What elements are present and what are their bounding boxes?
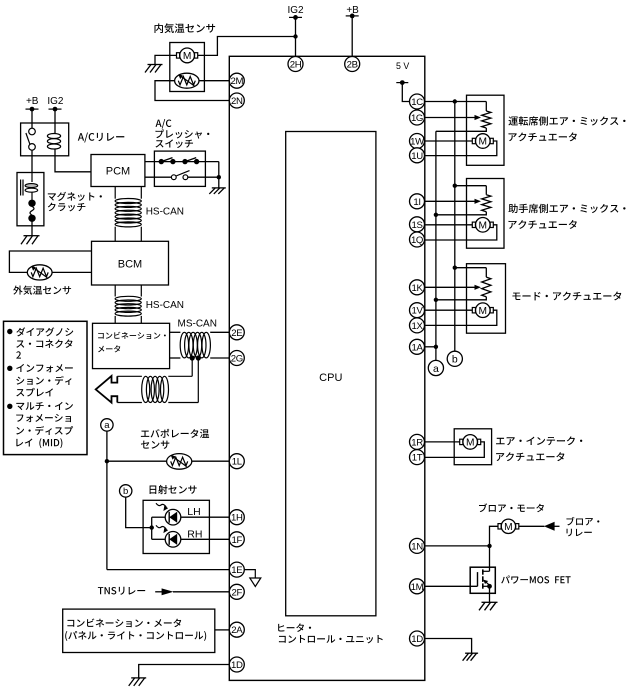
- label diagnosis connector line3: [16, 351, 21, 358]
- wire FET source to ground: [489, 586, 491, 602]
- wire meter to 2E: [170, 331, 230, 333]
- svg-text:M: M: [479, 306, 488, 317]
- wire motor 2 return to 1Q: [425, 225, 497, 240]
- svg-text:2M: 2M: [230, 76, 243, 87]
- label MID line3: [16, 426, 73, 435]
- junction a bus 1A: [434, 345, 438, 349]
- actuator box air intake: [454, 429, 491, 465]
- motor M driver side: [472, 134, 493, 149]
- pin 1H: [229, 510, 244, 525]
- svg-text:1M: 1M: [411, 582, 424, 593]
- node a right: [428, 360, 443, 375]
- clutch coil: [25, 173, 38, 201]
- wire 5V to 1C: [402, 83, 409, 102]
- pin 1I: [410, 194, 425, 209]
- svg-text:2H: 2H: [290, 60, 302, 71]
- pin 1N: [410, 538, 425, 553]
- wire BCM to ambient sensor: [9, 251, 91, 272]
- svg-text:1V: 1V: [411, 306, 423, 317]
- power MOS FET box: [470, 567, 495, 593]
- wire 1C to potentiometer 1: [425, 102, 487, 112]
- wire PCM to pressure switch lower: [145, 176, 172, 178]
- wire TNS relay stub: [155, 591, 162, 593]
- svg-text:M: M: [504, 522, 513, 533]
- svg-text:CPU: CPU: [319, 372, 342, 384]
- wire branch pair lower: [117, 402, 198, 404]
- label LH: [187, 506, 200, 518]
- display devices list box: [4, 321, 88, 454]
- label HS-CAN 1: [146, 207, 184, 218]
- svg-text:a: a: [433, 363, 439, 375]
- label driver side actuator line2: [509, 132, 577, 141]
- potentiometer R3: [482, 277, 491, 297]
- wire potentiometer 1 bottom: [436, 128, 486, 131]
- svg-text:HS-CAN: HS-CAN: [146, 207, 184, 218]
- svg-text:LH: LH: [187, 506, 200, 518]
- wire 1M to FET gate: [425, 585, 478, 587]
- wire node b to diodes: [126, 497, 152, 527]
- wire b bus to potentiometer 2: [455, 186, 487, 195]
- junction IG2/blower-fan: [293, 34, 297, 38]
- twisted pair HS-CAN 1 lines lower: [115, 227, 141, 242]
- ground power MOS FET: [479, 602, 498, 610]
- svg-text:1S: 1S: [411, 220, 422, 231]
- ground cabin sensor fan: [145, 65, 163, 73]
- wire +B to 2B: [351, 16, 353, 57]
- svg-text:+B: +B: [26, 96, 39, 107]
- svg-text:2B: 2B: [347, 60, 358, 71]
- junction MS-CAN branch 1: [190, 355, 195, 360]
- wire diode common vertical: [151, 517, 153, 539]
- svg-text:BCM: BCM: [118, 259, 142, 271]
- clutch coil core bars: [21, 180, 23, 196]
- label ambient temp sensor: [13, 285, 71, 294]
- thermistor evaporator temp: [167, 454, 192, 470]
- wire 1R to motor 4: [425, 441, 460, 443]
- clutch link squiggle: [30, 207, 34, 216]
- wire blower feed: [490, 526, 499, 546]
- label passenger side actuator line2: [509, 220, 577, 229]
- pin 2F: [229, 584, 244, 599]
- arrow from blower relay: [544, 522, 560, 531]
- A/C relay box: [21, 123, 69, 156]
- svg-text:1I: 1I: [413, 197, 420, 208]
- pin 1K: [410, 280, 425, 295]
- label diagnosis connector line1: [16, 327, 73, 336]
- wire b bus to potentiometer 3: [455, 268, 487, 277]
- pin 2G: [229, 351, 244, 366]
- svg-text:HS-CAN: HS-CAN: [146, 300, 184, 311]
- svg-text:M: M: [479, 137, 488, 148]
- svg-text:1D: 1D: [231, 660, 243, 671]
- wire motor 4 return to 1T: [425, 442, 485, 458]
- power IG2 terminal top: [287, 5, 304, 20]
- potentiometer R2: [482, 195, 491, 212]
- arrow wiper 2: [475, 199, 482, 204]
- wire thermistor to 2M: [199, 80, 229, 82]
- pressure switch open contact: [171, 171, 218, 180]
- twisted pair HS-CAN 2 coil: [115, 296, 141, 316]
- wire meter panel to 2A: [215, 629, 230, 631]
- wire 1K wiper 3: [425, 286, 476, 288]
- label power MOS FET: [501, 575, 570, 583]
- label sunload sensor: [150, 485, 197, 494]
- pin 2N: [229, 93, 244, 108]
- power +B terminal top: [346, 5, 359, 18]
- svg-text:1U: 1U: [411, 151, 423, 162]
- wire branch pair upper: [117, 375, 192, 377]
- wire blower to FET drain: [489, 546, 491, 571]
- pin 1R: [410, 434, 425, 449]
- wire 1D left to ground: [139, 665, 230, 678]
- motor M mode: [472, 303, 493, 318]
- svg-text:M: M: [466, 438, 475, 449]
- pin 1F: [229, 532, 244, 547]
- label MID line2: [16, 414, 71, 422]
- junction b bus mode: [453, 266, 457, 270]
- combination meter panel box: [63, 609, 215, 652]
- pin 2A: [229, 622, 244, 637]
- wire PCM to pressure switch upper: [145, 161, 219, 163]
- svg-text:MS-CAN: MS-CAN: [178, 318, 217, 329]
- label combination meter panel line1: [67, 619, 181, 628]
- svg-text:1Q: 1Q: [411, 235, 423, 246]
- svg-text:1W: 1W: [410, 137, 425, 148]
- svg-text:b: b: [123, 486, 128, 497]
- wire 1S to motor 2: [425, 224, 473, 226]
- svg-text:IG2: IG2: [47, 96, 64, 107]
- label blower motor: [479, 503, 544, 512]
- node b left: [120, 485, 132, 498]
- wire meter to 2G: [170, 357, 230, 359]
- wire motor 3 return to 1X: [425, 310, 497, 325]
- pin 2M: [229, 73, 244, 88]
- pin 1X: [410, 318, 425, 333]
- wire 1A to a bus: [425, 346, 436, 348]
- label combination meter line1: [98, 332, 166, 339]
- power +B terminal left: [26, 96, 39, 112]
- ground 1D left: [129, 678, 147, 686]
- wire IG2 to 2H: [295, 17, 297, 56]
- label information display line1: [16, 364, 73, 372]
- label driver side actuator line1: [509, 116, 626, 125]
- wire relay switch to clutch: [31, 150, 33, 172]
- PCM U2 box: [91, 155, 145, 187]
- twisted pair HS-CAN 1 lines upper: [115, 187, 141, 199]
- pin 1L: [229, 454, 244, 469]
- pin 1A: [410, 339, 425, 354]
- svg-text:2G: 2G: [231, 354, 243, 365]
- arrow TNS relay: [162, 588, 174, 595]
- photodiode LH: [156, 503, 181, 525]
- wire 1I wiper 2: [425, 200, 476, 202]
- twisted pair branch coil: [142, 376, 169, 402]
- svg-text:1E: 1E: [231, 565, 242, 576]
- label cabin temp sensor: [154, 23, 215, 33]
- wire potentiometer 3 bottom: [436, 297, 486, 300]
- label A/C pressure switch line1: [156, 119, 172, 129]
- pressure switch blades: [161, 158, 196, 162]
- label MID line1: [16, 402, 73, 410]
- motor M passenger side: [472, 218, 493, 233]
- label heater control unit line1: [278, 623, 311, 632]
- pin 1D right: [410, 631, 425, 646]
- label evaporator sensor line2: [141, 441, 169, 449]
- pin 2H: [288, 57, 303, 72]
- ground 1D right: [463, 653, 479, 661]
- FET Q1 drain lead: [483, 570, 490, 572]
- junction b bus 1C: [453, 99, 457, 103]
- svg-text:IG2: IG2: [287, 5, 304, 16]
- wire fan motor to IG2: [198, 37, 296, 56]
- wire 1E hook: [244, 570, 255, 578]
- wire TNS arrow to 2F: [173, 591, 229, 593]
- junction pressure switch ground: [217, 175, 221, 179]
- FET Q1 source lead: [483, 585, 490, 587]
- wire branch pair verticals: [192, 358, 198, 403]
- svg-text:M: M: [183, 51, 192, 62]
- clutch contact lower: [28, 215, 35, 222]
- svg-text:PCM: PCM: [106, 166, 130, 178]
- wire thermistor to 2N: [155, 81, 229, 101]
- ground pressure switch: [209, 188, 226, 194]
- power 5V terminal: [396, 61, 409, 85]
- label information display line3: [16, 388, 53, 397]
- label air intake actuator line1: [496, 436, 582, 445]
- svg-text:2N: 2N: [231, 96, 243, 107]
- pin 1D left: [229, 657, 244, 672]
- svg-text:1K: 1K: [411, 283, 423, 294]
- wire +B to relay switch: [31, 109, 33, 128]
- label magnet clutch line1: [48, 192, 102, 201]
- photodiode RH: [156, 525, 181, 547]
- twisted pair HS-CAN 2 lines lower: [115, 316, 141, 323]
- wire fan motor to ground: [155, 55, 176, 64]
- twisted pair HS-CAN 1 coil: [115, 199, 141, 227]
- pin 1U: [410, 148, 425, 163]
- pin 2E: [229, 325, 244, 340]
- A/C pressure switch box: [154, 151, 205, 186]
- FET Q1 channel: [482, 569, 484, 588]
- wire node a down to 1E: [106, 431, 108, 569]
- pin 1W: [410, 134, 426, 149]
- wire potentiometer 2 bottom: [436, 212, 486, 215]
- junction a bus act2: [434, 213, 438, 217]
- wire 1G wiper 1: [425, 117, 476, 119]
- wire 1V to motor 3: [425, 309, 473, 311]
- wire blower to relay: [519, 525, 544, 527]
- FET Q1 substrate arrow: [483, 580, 489, 585]
- motor M air intake: [460, 435, 481, 450]
- svg-text:1N: 1N: [411, 541, 423, 552]
- svg-text:5 V: 5 V: [396, 61, 409, 71]
- junction FET source: [487, 584, 492, 589]
- pin 1E: [229, 562, 244, 577]
- wire b bus: [454, 102, 456, 352]
- wire evaporator sensor to 1L: [107, 460, 229, 462]
- pin 1C: [410, 94, 425, 109]
- wire RH diode to 1F: [152, 538, 230, 540]
- label magnet clutch line2: [48, 203, 86, 212]
- svg-text:M: M: [479, 221, 488, 232]
- combination meter box: [93, 323, 170, 368]
- arrow wiper 3: [475, 285, 482, 290]
- actuator box driver side: [467, 95, 505, 165]
- bullet information display: [7, 366, 12, 371]
- label mode actuator: [513, 291, 622, 300]
- pin 1S: [410, 217, 425, 232]
- label RH: [187, 528, 202, 540]
- junction b bus act2: [453, 184, 457, 188]
- arrow wiper 1: [475, 115, 482, 120]
- svg-text:1D: 1D: [411, 634, 423, 645]
- svg-text:1A: 1A: [411, 342, 423, 353]
- twisted pair HS-CAN 2 lines upper: [115, 285, 141, 297]
- label HS-CAN 2: [146, 300, 184, 311]
- BCM U3 box: [92, 241, 169, 285]
- label air intake actuator line2: [496, 452, 564, 461]
- wire 1D right to ground: [425, 639, 472, 654]
- pressure switch contact dots: [159, 159, 200, 164]
- label A/C relay: [78, 133, 125, 143]
- pin 1V: [410, 303, 425, 318]
- wire motor 1 return to 1U: [425, 141, 497, 156]
- svg-text:RH: RH: [187, 528, 202, 540]
- wire a bus: [435, 131, 437, 360]
- bullet diagnosis connector: [7, 329, 12, 334]
- svg-text:1X: 1X: [411, 321, 423, 332]
- fan motor M cabin sensor: [177, 48, 198, 63]
- wire 1N to blower: [425, 545, 490, 547]
- wire relay coil to PCM: [55, 156, 91, 172]
- junction diode common: [150, 525, 154, 529]
- node b right: [447, 351, 462, 366]
- pin 1T: [410, 450, 425, 465]
- svg-text:1C: 1C: [411, 97, 423, 108]
- actuator box mode: [467, 264, 506, 334]
- pin 1G: [410, 110, 425, 125]
- arrow to display devices: [96, 376, 118, 403]
- svg-text:1F: 1F: [232, 535, 243, 546]
- label heater control unit line2: [279, 635, 383, 643]
- junction blower: [487, 544, 491, 548]
- thermistor cabin temp: [175, 73, 199, 88]
- actuator box passenger side: [467, 179, 505, 249]
- clutch contact upper: [28, 200, 35, 207]
- pin 1Q: [410, 232, 425, 247]
- sunload sensor box: [143, 500, 209, 553]
- svg-text:a: a: [104, 420, 110, 431]
- label TNS relay: [98, 587, 145, 595]
- wire 1W to motor 1: [425, 140, 473, 142]
- junction MS-CAN branch 2: [196, 355, 201, 360]
- svg-text:1G: 1G: [411, 113, 423, 124]
- shield symbol at 1E: [250, 578, 261, 587]
- potentiometer R1: [482, 111, 491, 128]
- label blower relay line2: [567, 529, 592, 537]
- svg-text:2E: 2E: [231, 328, 242, 339]
- label blower relay line1: [566, 517, 599, 526]
- svg-text:1R: 1R: [411, 437, 423, 448]
- thermistor ambient temp: [27, 265, 52, 280]
- blower motor M: [498, 519, 519, 533]
- FET Q1 gate: [477, 572, 479, 586]
- svg-text:2A: 2A: [231, 625, 243, 636]
- power IG2 terminal left: [47, 96, 64, 112]
- wire LH diode to 1H: [152, 516, 230, 518]
- wire to 1E: [107, 569, 229, 571]
- svg-text:1L: 1L: [232, 457, 243, 468]
- label MS-CAN: [178, 318, 217, 329]
- svg-text:1H: 1H: [231, 513, 243, 524]
- label information display line2: [16, 376, 71, 385]
- CPU U1 box: [286, 132, 376, 616]
- svg-text:b: b: [452, 354, 458, 366]
- label combination meter line2: [98, 345, 120, 352]
- pin 2B: [345, 57, 360, 72]
- label MID line4: [16, 438, 62, 448]
- label A/C pressure switch line3: [156, 139, 194, 148]
- relay coil: [47, 134, 60, 156]
- wire clutch to ground: [31, 222, 33, 236]
- svg-text:1T: 1T: [412, 453, 423, 464]
- wire pressure switch to ground: [218, 162, 220, 188]
- label combination meter panel line2: [65, 631, 206, 641]
- junction a bus mode: [434, 298, 438, 302]
- label evaporator sensor line1: [141, 429, 209, 438]
- node a left: [101, 419, 113, 432]
- svg-text:2F: 2F: [232, 587, 243, 598]
- magnet clutch box: [17, 173, 44, 226]
- junction evaporator branch: [105, 459, 109, 463]
- heater control unit box: [229, 56, 424, 680]
- bullet multi information display: [7, 404, 12, 409]
- label A/C pressure switch line2: [155, 129, 209, 138]
- ground magnet clutch: [21, 236, 40, 245]
- wire IG2 to relay coil: [54, 109, 56, 133]
- twisted pair MS-CAN coil: [180, 332, 210, 358]
- label diagnosis connector line2: [16, 339, 72, 348]
- cabin temp sensor box: [170, 43, 205, 92]
- label passenger side actuator line1: [509, 204, 626, 213]
- relay switch contacts: [26, 128, 35, 150]
- pin 1M: [410, 579, 425, 594]
